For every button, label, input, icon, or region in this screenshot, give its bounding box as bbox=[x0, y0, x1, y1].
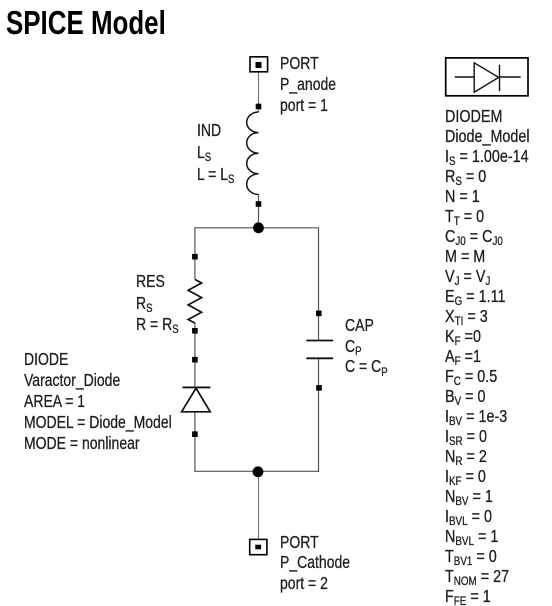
pin diode bottom bbox=[192, 431, 198, 437]
port P_Cathode symbol bbox=[250, 539, 267, 554]
wire capacitor to bottom rail bbox=[318, 358, 320, 472]
pin diode top bbox=[192, 357, 198, 363]
label RES RS bbox=[136, 271, 179, 336]
resistor R1 zigzag bbox=[188, 279, 201, 323]
pin resistor top bbox=[192, 254, 198, 260]
diode model DIODEM symbol box bbox=[446, 58, 528, 96]
wire inductor bottom pin to top junction bbox=[258, 195, 260, 228]
label PORT P_Cathode port = 2 bbox=[280, 532, 350, 594]
pin inductor bottom bbox=[256, 201, 262, 207]
capacitor C1 plates bbox=[306, 341, 333, 359]
node junction bottom bbox=[253, 466, 264, 477]
wire diode to bottom rail bbox=[194, 412, 196, 472]
wire top rail left bbox=[195, 227, 259, 229]
diode D1 varactor symbol bbox=[182, 387, 211, 411]
inductor L1 coil bbox=[247, 112, 259, 195]
pin capacitor top bbox=[316, 311, 322, 317]
label PORT P_anode port = 1 bbox=[280, 53, 336, 116]
port P_anode symbol bbox=[250, 57, 268, 72]
wire bottom rail right bbox=[259, 470, 320, 472]
wire port P_anode to inductor top pin bbox=[258, 72, 260, 113]
label DIODE Varactor_Diode bbox=[24, 349, 172, 454]
wire top rail to capacitor bbox=[318, 227, 320, 340]
pin inductor top bbox=[256, 104, 262, 110]
wire resistor to diode bbox=[194, 323, 196, 387]
pin resistor bottom bbox=[192, 328, 198, 334]
label DIODEM parameter list bbox=[445, 106, 530, 606]
node junction top bbox=[253, 222, 264, 233]
wire bottom rail left bbox=[194, 470, 258, 472]
wire top rail to resistor bbox=[194, 227, 196, 279]
title SPICE Model bbox=[6, 4, 166, 42]
wire bottom junction to port P_Cathode bbox=[258, 471, 260, 539]
label CAP CP bbox=[345, 315, 388, 377]
pin capacitor bottom bbox=[316, 385, 322, 391]
wire top rail right bbox=[259, 227, 319, 229]
label IND LS bbox=[197, 119, 234, 185]
